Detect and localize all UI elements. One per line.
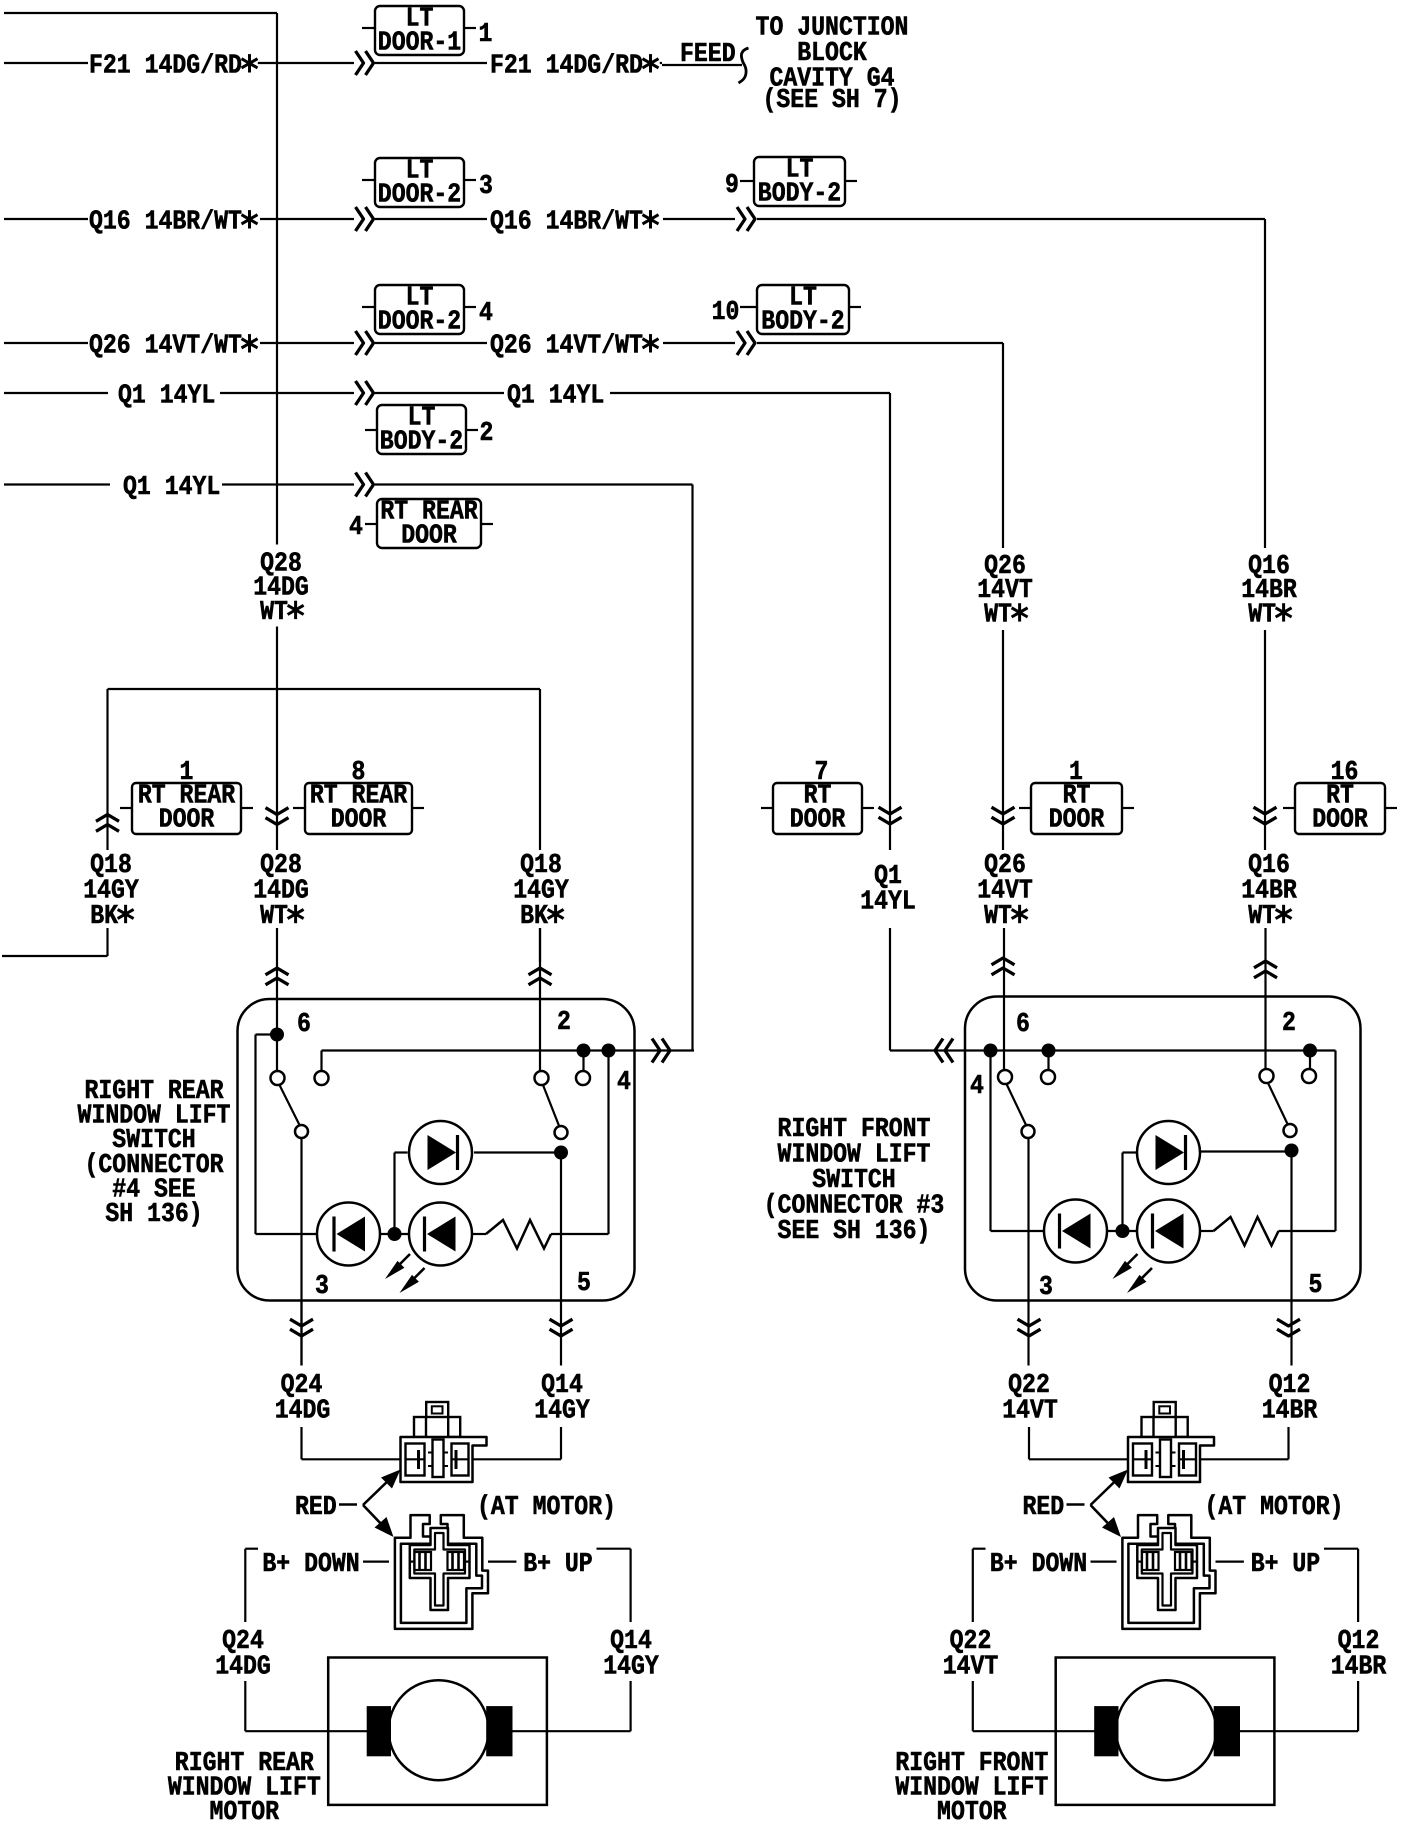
svg-text:7: 7: [815, 758, 829, 788]
svg-text:3: 3: [1039, 1273, 1053, 1303]
svg-text:Q26 14VT/WT: Q26 14VT/WT: [89, 331, 242, 361]
svg-text:Q1 14YL: Q1 14YL: [507, 381, 604, 411]
svg-text:F21 14DG/RD: F21 14DG/RD: [89, 51, 242, 81]
svg-text:16: 16: [1331, 758, 1359, 788]
svg-text:4: 4: [617, 1068, 631, 1098]
svg-text:14BR: 14BR: [1262, 1397, 1318, 1427]
svg-text:DOOR-2: DOOR-2: [378, 181, 461, 211]
svg-text:4: 4: [479, 299, 493, 329]
svg-text:RED: RED: [295, 1493, 337, 1523]
svg-text:1: 1: [479, 20, 493, 50]
svg-text:WT: WT: [1248, 600, 1276, 630]
svg-text:WT: WT: [260, 902, 288, 932]
svg-text:BODY-2: BODY-2: [761, 308, 844, 338]
svg-text:(AT MOTOR): (AT MOTOR): [1205, 1493, 1344, 1523]
svg-text:Q26 14VT/WT: Q26 14VT/WT: [490, 331, 643, 361]
svg-text:4: 4: [349, 513, 363, 543]
svg-text:1: 1: [1069, 758, 1083, 788]
svg-text:14DG: 14DG: [275, 1397, 331, 1427]
svg-text:BK: BK: [520, 902, 548, 932]
svg-text:2: 2: [1282, 1009, 1296, 1039]
svg-text:B+ DOWN: B+ DOWN: [262, 1550, 359, 1580]
svg-text:RED: RED: [1023, 1493, 1065, 1523]
svg-text:DOOR: DOOR: [331, 806, 387, 836]
svg-text:14GY: 14GY: [603, 1653, 659, 1683]
svg-text:MOTOR: MOTOR: [937, 1798, 1007, 1828]
svg-text:2: 2: [480, 419, 494, 449]
svg-text:10: 10: [712, 298, 740, 328]
svg-text:Q1 14YL: Q1 14YL: [123, 473, 220, 503]
svg-text:DOOR: DOOR: [1312, 806, 1368, 836]
svg-text:9: 9: [725, 171, 739, 201]
svg-text:14DG: 14DG: [215, 1653, 271, 1683]
svg-text:(AT MOTOR): (AT MOTOR): [477, 1493, 616, 1523]
svg-text:WT: WT: [984, 600, 1012, 630]
svg-text:F21 14DG/RD: F21 14DG/RD: [490, 51, 643, 81]
svg-text:3: 3: [479, 172, 493, 202]
svg-text:14YL: 14YL: [860, 888, 916, 918]
svg-text:WT: WT: [260, 598, 288, 628]
svg-text:DOOR: DOOR: [159, 806, 215, 836]
svg-text:DOOR: DOOR: [1049, 806, 1105, 836]
svg-text:Q16 14BR/WT: Q16 14BR/WT: [490, 207, 643, 237]
svg-text:MOTOR: MOTOR: [210, 1798, 280, 1828]
svg-text:B+ DOWN: B+ DOWN: [990, 1550, 1087, 1580]
svg-text:BODY-2: BODY-2: [380, 428, 463, 458]
svg-text:B+ UP: B+ UP: [523, 1550, 593, 1580]
svg-text:4: 4: [970, 1072, 984, 1102]
svg-text:BODY-2: BODY-2: [758, 180, 841, 210]
svg-text:14BR: 14BR: [1331, 1653, 1387, 1683]
svg-text:(SEE SH 7): (SEE SH 7): [763, 86, 902, 116]
svg-text:SH 136): SH 136): [105, 1200, 202, 1230]
svg-text:14VT: 14VT: [1002, 1397, 1058, 1427]
svg-text:5: 5: [1309, 1271, 1323, 1301]
svg-text:6: 6: [1016, 1010, 1030, 1040]
svg-text:DOOR: DOOR: [790, 806, 846, 836]
svg-text:DOOR: DOOR: [401, 522, 457, 552]
svg-text:2: 2: [557, 1008, 571, 1038]
svg-text:5: 5: [577, 1269, 591, 1299]
svg-text:B+ UP: B+ UP: [1251, 1550, 1321, 1580]
svg-text:14VT: 14VT: [943, 1653, 999, 1683]
svg-text:1: 1: [180, 758, 194, 788]
svg-text:DOOR-2: DOOR-2: [378, 308, 461, 338]
svg-text:8: 8: [352, 758, 366, 788]
svg-text:Q16 14BR/WT: Q16 14BR/WT: [89, 207, 242, 237]
svg-text:SEE SH 136): SEE SH 136): [778, 1217, 931, 1247]
svg-text:BK: BK: [90, 902, 118, 932]
svg-text:DOOR-1: DOOR-1: [378, 29, 461, 59]
svg-text:WT: WT: [1248, 902, 1276, 932]
svg-text:6: 6: [297, 1010, 311, 1040]
svg-text:Q1 14YL: Q1 14YL: [118, 381, 215, 411]
svg-text:WT: WT: [984, 902, 1012, 932]
svg-text:14GY: 14GY: [534, 1397, 590, 1427]
svg-text:3: 3: [315, 1272, 329, 1302]
